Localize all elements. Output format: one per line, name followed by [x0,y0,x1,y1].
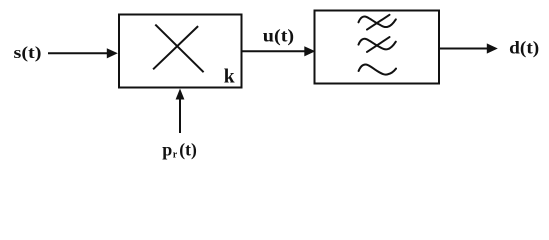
svg-text:(t): (t) [179,140,197,161]
svg-text:u(t): u(t) [263,26,294,47]
svg-text:s(t): s(t) [14,43,42,62]
svg-text:r: r [173,149,178,160]
svg-text:p: p [162,140,172,160]
svg-text:d(t): d(t) [509,37,539,58]
svg-text:k: k [224,67,235,88]
